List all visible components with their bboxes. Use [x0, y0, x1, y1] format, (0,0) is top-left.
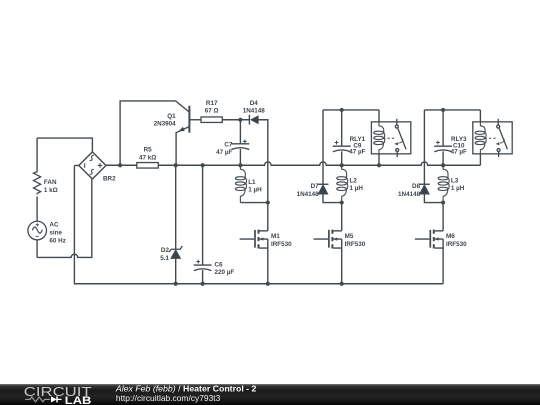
svg-text:1N4148: 1N4148 — [398, 191, 421, 198]
svg-text:L3: L3 — [451, 177, 459, 184]
svg-text:IRF530: IRF530 — [271, 241, 292, 248]
svg-text:IRF530: IRF530 — [446, 241, 467, 248]
svg-text:2N3904: 2N3904 — [154, 121, 177, 128]
svg-text:C7: C7 — [224, 142, 233, 149]
svg-text:Alex Feb (febb) / Heater Contr: Alex Feb (febb) / Heater Control - 2 — [115, 383, 257, 393]
svg-text:R5: R5 — [144, 147, 153, 154]
svg-text:67 Ω: 67 Ω — [205, 108, 219, 115]
svg-text:1N4148: 1N4148 — [297, 191, 320, 198]
svg-text:FAN: FAN — [44, 179, 57, 186]
svg-text:M6: M6 — [446, 233, 455, 240]
svg-text:47 µF: 47 µF — [349, 149, 365, 156]
svg-text:M5: M5 — [345, 233, 354, 240]
svg-text:AC: AC — [49, 222, 59, 229]
svg-text:IRF530: IRF530 — [345, 241, 366, 248]
svg-text:1 µH: 1 µH — [350, 185, 364, 192]
svg-text:1 µH: 1 µH — [451, 185, 465, 192]
svg-text:sine: sine — [49, 230, 62, 237]
svg-text:D2: D2 — [161, 247, 170, 254]
svg-text:D8: D8 — [412, 183, 421, 190]
svg-text:D7: D7 — [311, 183, 320, 190]
svg-text:L1: L1 — [248, 179, 256, 186]
svg-text:M1: M1 — [271, 233, 280, 240]
svg-text:47 kΩ: 47 kΩ — [139, 154, 156, 161]
svg-text:LAB: LAB — [65, 395, 92, 405]
svg-text:47 µF: 47 µF — [451, 149, 467, 156]
svg-text:47 µF: 47 µF — [216, 149, 232, 156]
svg-text:D4: D4 — [250, 100, 259, 107]
svg-text:C6: C6 — [215, 262, 224, 269]
svg-text:Q1: Q1 — [167, 113, 176, 120]
svg-text:BR2: BR2 — [103, 176, 116, 183]
svg-text:L2: L2 — [350, 177, 358, 184]
svg-text:5.1: 5.1 — [160, 255, 169, 262]
svg-text:1N4148: 1N4148 — [243, 107, 266, 114]
svg-text:1 µH: 1 µH — [248, 186, 262, 193]
svg-text:220 µF: 220 µF — [215, 269, 235, 276]
svg-text:1 kΩ: 1 kΩ — [44, 187, 58, 194]
svg-text:http://circuitlab.com/cy793t3: http://circuitlab.com/cy793t3 — [116, 393, 221, 403]
svg-text:60 Hz: 60 Hz — [49, 238, 65, 245]
svg-text:R17: R17 — [206, 100, 218, 107]
